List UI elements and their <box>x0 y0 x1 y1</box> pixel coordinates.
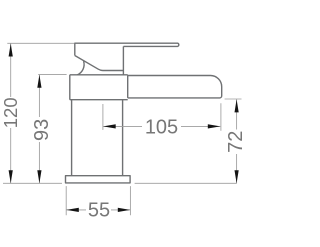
svg-text:120: 120 <box>0 97 21 128</box>
svg-text:105: 105 <box>145 116 178 138</box>
svg-text:93: 93 <box>31 119 53 141</box>
svg-text:55: 55 <box>88 199 110 221</box>
svg-text:72: 72 <box>225 131 247 153</box>
